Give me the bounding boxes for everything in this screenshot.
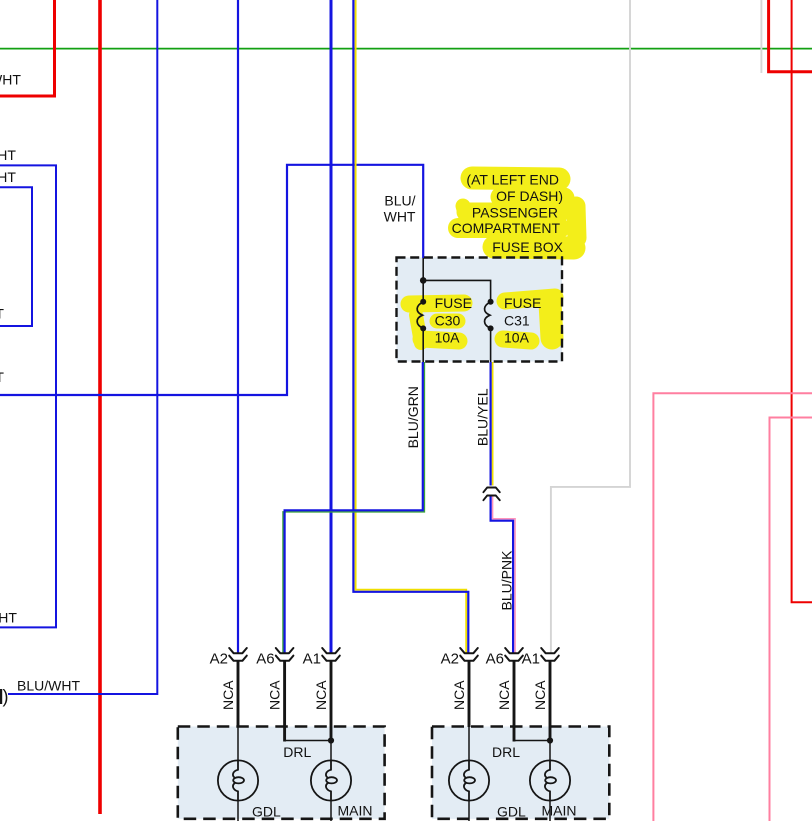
svg-text:PASSENGER: PASSENGER <box>472 205 558 221</box>
svg-text:A1: A1 <box>522 651 540 668</box>
svg-text:10A: 10A <box>435 329 461 345</box>
svg-text:FUSE BOX: FUSE BOX <box>492 239 563 255</box>
svg-text:BLU/GRN: BLU/GRN <box>405 386 421 448</box>
svg-text:WHT: WHT <box>0 306 4 322</box>
svg-text:WHT: WHT <box>0 369 4 385</box>
svg-text:BLU/: BLU/ <box>384 193 415 209</box>
svg-text:NCA: NCA <box>220 680 236 710</box>
svg-text:WHT: WHT <box>384 209 416 225</box>
svg-text:NCA: NCA <box>496 680 512 710</box>
svg-text:WHT: WHT <box>0 169 16 185</box>
svg-text:C30: C30 <box>435 312 461 328</box>
svg-text:GDL: GDL <box>497 804 526 820</box>
svg-text:): ) <box>3 687 9 707</box>
svg-text:DRL: DRL <box>492 744 520 760</box>
svg-text:FUSE: FUSE <box>435 295 472 311</box>
svg-text:A6: A6 <box>256 651 274 668</box>
svg-text:DRL: DRL <box>283 744 311 760</box>
svg-text:WHT: WHT <box>0 72 21 88</box>
svg-text:A1: A1 <box>303 651 321 668</box>
svg-text:A2: A2 <box>441 651 459 668</box>
svg-text:COMPARTMENT: COMPARTMENT <box>452 220 561 236</box>
svg-text:NCA: NCA <box>313 680 329 710</box>
svg-text:A2: A2 <box>210 651 228 668</box>
svg-text:BLU/PNK: BLU/PNK <box>498 550 514 611</box>
svg-text:OF DASH): OF DASH) <box>496 188 563 204</box>
svg-text:BLU/YEL: BLU/YEL <box>475 388 491 446</box>
svg-text:A6: A6 <box>486 651 504 668</box>
svg-text:NCA: NCA <box>266 680 282 710</box>
svg-text:WHT: WHT <box>0 610 17 626</box>
svg-text:FUSE: FUSE <box>504 295 541 311</box>
svg-text:BLU/WHT: BLU/WHT <box>17 678 80 694</box>
svg-text:(AT LEFT END: (AT LEFT END <box>466 171 559 187</box>
svg-text:MAIN: MAIN <box>542 803 577 819</box>
svg-text:GDL: GDL <box>252 804 281 820</box>
svg-text:C31: C31 <box>504 312 530 328</box>
svg-text:NCA: NCA <box>451 680 467 710</box>
svg-text:MAIN: MAIN <box>338 803 373 819</box>
svg-text:WHT: WHT <box>0 147 16 163</box>
svg-text:10A: 10A <box>504 329 530 345</box>
svg-text:NCA: NCA <box>532 680 548 710</box>
